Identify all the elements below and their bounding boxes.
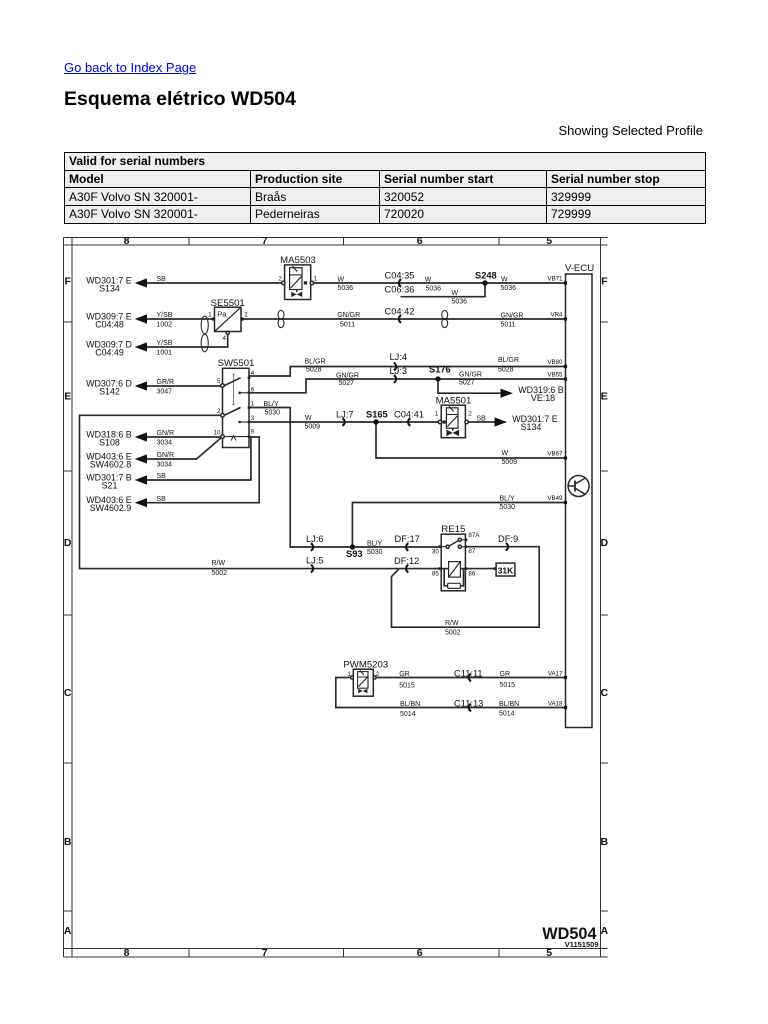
svg-text:SW5501: SW5501: [218, 358, 255, 369]
svg-text:V1151509: V1151509: [565, 940, 599, 949]
svg-text:D: D: [64, 537, 72, 549]
svg-text:SW4602.9: SW4602.9: [90, 503, 132, 513]
svg-text:2: 2: [244, 312, 248, 319]
svg-text:GR: GR: [399, 671, 410, 678]
svg-text:DF:12: DF:12: [394, 556, 419, 566]
svg-text:8: 8: [124, 235, 130, 247]
svg-text:5011: 5011: [340, 322, 355, 329]
svg-text:5036: 5036: [501, 285, 517, 292]
svg-text:87: 87: [468, 548, 475, 555]
svg-text:5009: 5009: [305, 424, 321, 431]
svg-text:SE5501: SE5501: [211, 298, 245, 309]
svg-text:5015: 5015: [500, 682, 516, 689]
svg-text:RE15: RE15: [441, 524, 465, 535]
svg-text:5030: 5030: [500, 504, 516, 511]
svg-text:BL/Y: BL/Y: [264, 401, 280, 408]
svg-text:Pa: Pa: [217, 310, 227, 319]
svg-text:C: C: [64, 687, 72, 699]
svg-text:5036: 5036: [452, 299, 468, 306]
svg-text:DF:17: DF:17: [395, 534, 420, 544]
svg-text:1: 1: [251, 401, 255, 408]
svg-text:Y/SB: Y/SB: [157, 340, 173, 347]
svg-text:R/W: R/W: [212, 560, 226, 567]
svg-text:BL/GR: BL/GR: [305, 359, 326, 366]
svg-text:LJ:3: LJ:3: [390, 366, 408, 376]
svg-text:S134: S134: [99, 283, 120, 293]
svg-text:BL/Y: BL/Y: [367, 541, 383, 548]
svg-text:3034: 3034: [157, 462, 173, 469]
svg-text:5027: 5027: [339, 380, 355, 387]
svg-text:1002: 1002: [157, 321, 173, 328]
svg-text:W: W: [425, 277, 432, 284]
svg-text:1: 1: [435, 411, 439, 418]
svg-text:5: 5: [217, 378, 221, 385]
svg-text:5036: 5036: [426, 286, 442, 293]
svg-text:1: 1: [208, 312, 212, 319]
svg-text:GN/GR: GN/GR: [336, 373, 359, 380]
svg-text:5009: 5009: [502, 459, 518, 466]
svg-text:C04:35: C04:35: [385, 270, 415, 280]
svg-text:B: B: [64, 836, 72, 848]
svg-text:SB: SB: [157, 496, 167, 503]
svg-text:W: W: [501, 277, 508, 284]
svg-text:C04:48: C04:48: [95, 319, 124, 329]
svg-text:VE:18: VE:18: [531, 393, 555, 403]
svg-text:7: 7: [262, 235, 268, 247]
svg-text:85: 85: [432, 570, 439, 577]
svg-text:VB67: VB67: [547, 451, 563, 458]
svg-text:3: 3: [251, 415, 255, 422]
svg-text:GR/R: GR/R: [157, 379, 175, 386]
svg-text:GN/GR: GN/GR: [459, 372, 482, 379]
svg-text:S134: S134: [521, 422, 542, 432]
svg-text:86: 86: [468, 570, 475, 577]
svg-text:S142: S142: [99, 386, 120, 396]
svg-text:C11:11: C11:11: [454, 669, 483, 679]
svg-text:S93: S93: [346, 549, 363, 559]
svg-text:5014: 5014: [499, 711, 515, 718]
svg-text:S108: S108: [99, 437, 120, 447]
svg-text:GN/GR: GN/GR: [337, 312, 360, 319]
svg-text:5002: 5002: [445, 630, 461, 637]
svg-text:5: 5: [546, 947, 552, 959]
svg-text:2: 2: [217, 408, 221, 415]
svg-text:Y/SB: Y/SB: [157, 312, 173, 319]
svg-text:7: 7: [262, 947, 268, 959]
svg-text:5: 5: [546, 235, 552, 247]
svg-text:E: E: [601, 391, 608, 403]
svg-text:A: A: [64, 925, 72, 937]
svg-text:5014: 5014: [400, 711, 416, 718]
svg-text:BL/BN: BL/BN: [499, 701, 519, 708]
svg-text:A: A: [601, 925, 609, 937]
svg-text:V-ECU: V-ECU: [565, 263, 594, 274]
svg-text:3047: 3047: [157, 389, 173, 396]
svg-text:PWM5203: PWM5203: [343, 660, 388, 671]
svg-text:1: 1: [347, 671, 351, 678]
svg-text:DF:9: DF:9: [498, 534, 518, 544]
svg-text:GR: GR: [500, 671, 511, 678]
svg-text:5030: 5030: [265, 410, 281, 417]
svg-text:LJ:6: LJ:6: [306, 534, 324, 544]
svg-text:VB55: VB55: [547, 372, 563, 379]
svg-text:5027: 5027: [459, 380, 475, 387]
svg-text:VB71: VB71: [547, 276, 563, 283]
svg-text:C11:13: C11:13: [454, 699, 483, 709]
svg-text:SB: SB: [157, 276, 167, 283]
svg-text:8: 8: [124, 947, 130, 959]
svg-text:5015: 5015: [399, 683, 415, 690]
svg-text:2: 2: [278, 276, 282, 283]
svg-text:C06:36: C06:36: [385, 284, 415, 294]
svg-text:6: 6: [417, 235, 423, 247]
svg-text:B: B: [601, 836, 609, 848]
svg-text:C: C: [601, 687, 609, 699]
svg-text:SW4602.8: SW4602.8: [90, 459, 132, 469]
svg-text:5028: 5028: [306, 366, 322, 373]
svg-text:BL/Y: BL/Y: [500, 496, 516, 503]
svg-text:BL/GR: BL/GR: [498, 357, 519, 364]
svg-text:F: F: [64, 276, 71, 288]
svg-text:VA17: VA17: [548, 670, 563, 677]
svg-text:MA5501: MA5501: [436, 396, 472, 407]
svg-text:30: 30: [432, 549, 439, 556]
svg-text:MA5503: MA5503: [280, 255, 316, 266]
svg-text:F: F: [601, 276, 608, 288]
svg-text:VA18: VA18: [548, 700, 563, 707]
svg-text:W: W: [305, 415, 312, 422]
svg-text:S176: S176: [429, 365, 451, 375]
svg-text:5030: 5030: [367, 549, 383, 556]
svg-text:C04:49: C04:49: [95, 347, 124, 357]
svg-text:W: W: [338, 277, 345, 284]
svg-text:GN/R: GN/R: [157, 452, 175, 459]
svg-text:VB80: VB80: [547, 359, 563, 366]
svg-text:D: D: [601, 537, 609, 549]
svg-text:R/W: R/W: [445, 620, 459, 627]
svg-text:VB49: VB49: [547, 495, 563, 502]
svg-text:2: 2: [376, 671, 380, 678]
svg-text:6: 6: [251, 387, 255, 394]
svg-text:2: 2: [468, 411, 472, 418]
svg-text:VR4: VR4: [550, 312, 563, 319]
svg-text:1: 1: [314, 276, 318, 283]
svg-text:3034: 3034: [157, 440, 173, 447]
svg-text:E: E: [64, 391, 71, 403]
svg-text:SB: SB: [477, 416, 487, 423]
svg-text:5028: 5028: [498, 366, 514, 373]
svg-text:5011: 5011: [501, 322, 516, 329]
svg-text:6: 6: [417, 947, 423, 959]
svg-text:9: 9: [251, 429, 255, 436]
svg-text:4: 4: [251, 370, 255, 377]
svg-text:LJ:7: LJ:7: [336, 410, 354, 420]
svg-text:LJ:5: LJ:5: [306, 556, 324, 566]
svg-text:S21: S21: [102, 480, 118, 490]
svg-text:BL/BN: BL/BN: [400, 701, 420, 708]
svg-text:W: W: [502, 450, 509, 457]
svg-text:W: W: [452, 290, 459, 297]
svg-text:5036: 5036: [338, 285, 354, 292]
svg-text:S248: S248: [475, 270, 497, 280]
svg-text:31K: 31K: [498, 565, 514, 575]
svg-text:GN/GR: GN/GR: [501, 313, 524, 320]
svg-text:C04:41: C04:41: [394, 410, 424, 420]
svg-text:87A: 87A: [468, 532, 480, 539]
svg-text:LJ:4: LJ:4: [390, 352, 408, 362]
svg-text:C04:42: C04:42: [385, 306, 415, 316]
svg-text:SB: SB: [157, 473, 167, 480]
svg-text:4: 4: [223, 335, 227, 342]
svg-text:GN/R: GN/R: [157, 430, 175, 437]
svg-text:5002: 5002: [212, 570, 228, 577]
svg-text:S165: S165: [366, 410, 388, 420]
svg-text:10: 10: [214, 430, 221, 437]
svg-text:1001: 1001: [157, 350, 173, 357]
